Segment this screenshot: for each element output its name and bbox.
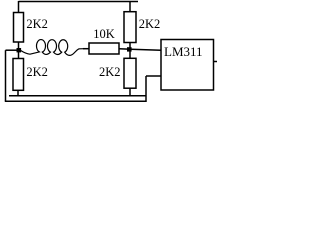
svg-text:LM311: LM311: [164, 44, 203, 59]
svg-text:2K2: 2K2: [26, 65, 48, 79]
wire left vertical rail: [5, 50, 7, 101]
wire R2 top lead: [129, 1, 131, 12]
wire U1 output pin tick: [214, 61, 218, 63]
wire R2 bottom lead: [129, 43, 131, 48]
wire R1 bottom lead: [18, 42, 20, 49]
wire node A to left rail: [6, 49, 18, 51]
wire node A down lead: [18, 52, 20, 59]
svg-text:2K2: 2K2: [99, 65, 121, 79]
wire top rail: [19, 1, 139, 3]
wire R4 bottom lead: [129, 88, 131, 96]
resistor R4 body: [124, 58, 136, 88]
svg-text:10K: 10K: [93, 27, 115, 41]
svg-text:2K2: 2K2: [139, 17, 161, 31]
wire coil to R5: [83, 48, 89, 50]
node A junction dot: [17, 48, 22, 52]
wire R3 bottom lead: [17, 90, 19, 95]
wire R4 top lead: [129, 52, 131, 59]
wire R1 top lead: [18, 1, 20, 13]
resistor R3 body: [13, 59, 24, 91]
resistor R5 body 10K: [89, 43, 119, 54]
inductor L1 (entry wire, three loops with crossing feet, exit curve): [21, 40, 85, 56]
resistor R1 body: [14, 13, 24, 43]
wire inner bottom rail: [9, 95, 146, 97]
wire lower pin into U1: [146, 75, 161, 77]
svg-text:2K2: 2K2: [26, 17, 48, 31]
resistor R2 body: [124, 12, 136, 43]
wire middle rail to U1: [119, 49, 161, 50]
node B junction dot: [127, 47, 132, 51]
wire outer bottom rail: [5, 100, 146, 102]
op-amp U1 LM311 box: [161, 40, 214, 91]
wire bottom-right vertical: [145, 76, 147, 102]
